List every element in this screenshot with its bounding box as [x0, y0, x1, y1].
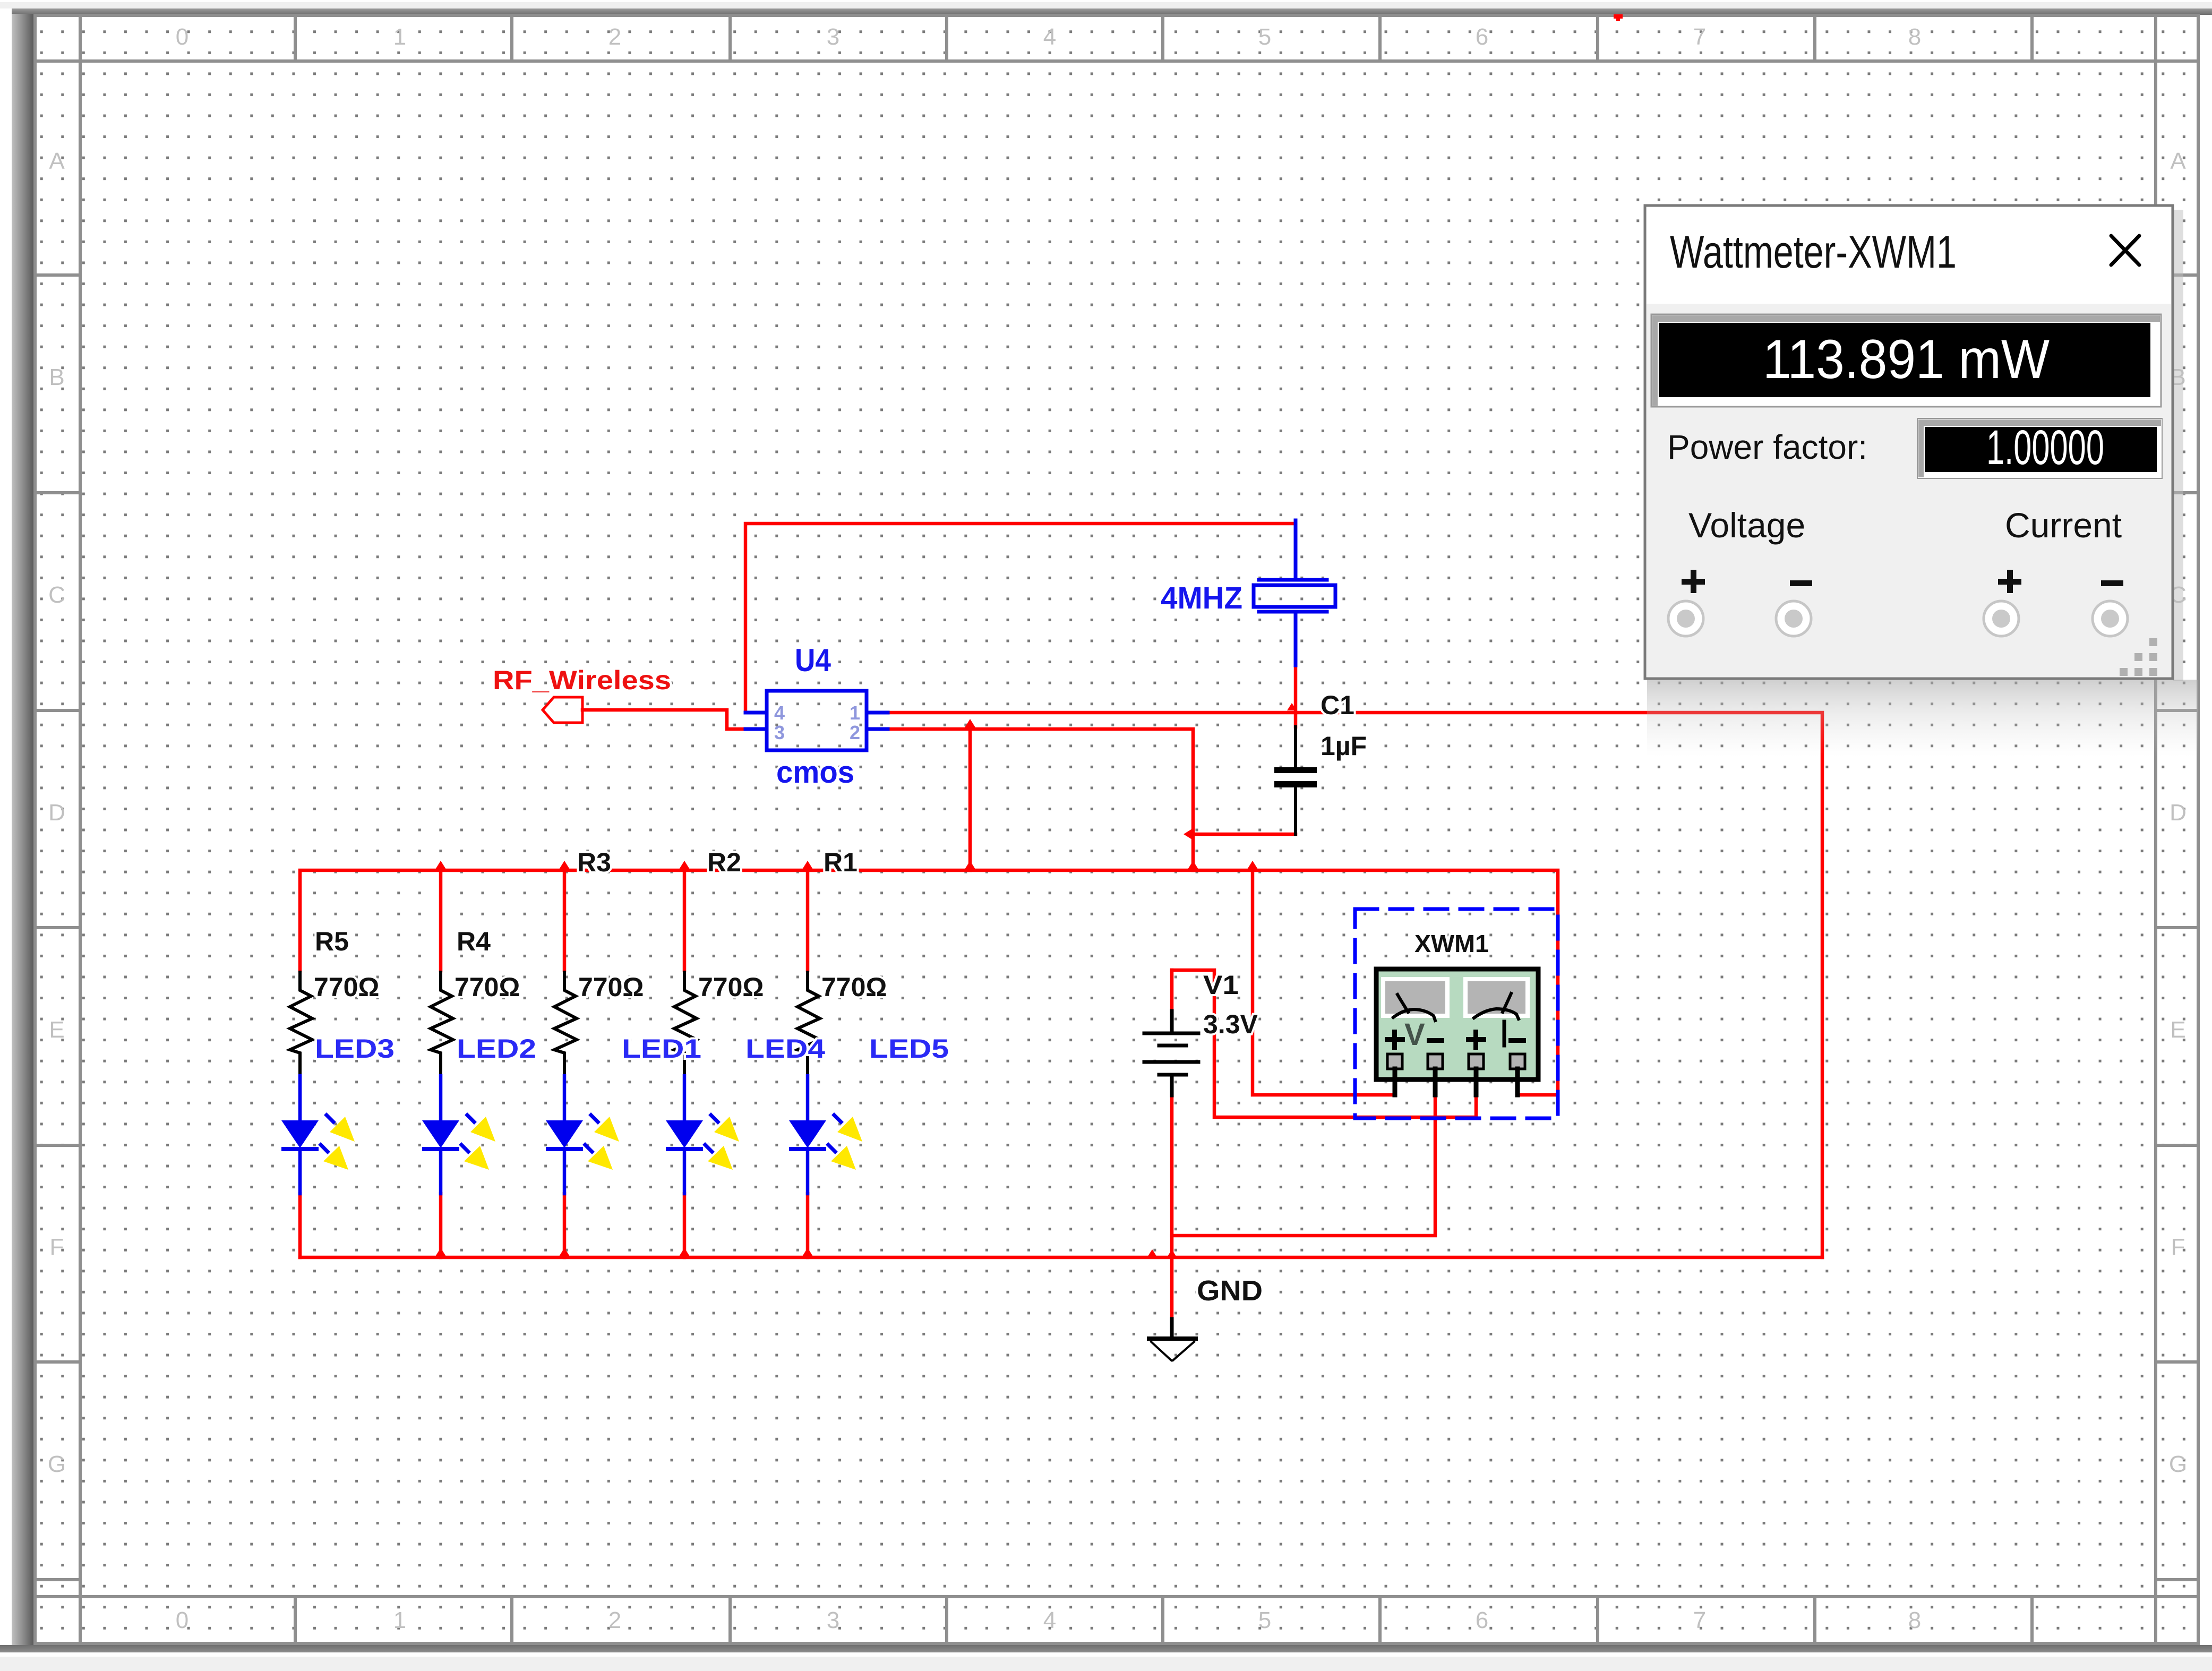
svg-text:1.00000: 1.00000: [1986, 421, 2104, 475]
LED2: [422, 1076, 495, 1194]
wire wattmeter V- to battery negative: [1172, 1095, 1435, 1236]
svg-text:B: B: [49, 364, 64, 390]
svg-text:LED5: LED5: [869, 1034, 949, 1064]
svg-text:LED1: LED1: [622, 1034, 701, 1064]
wire net U4.pin4 to crystal top loop: [745, 524, 1296, 713]
junction battery at ground bus: [1168, 1249, 1176, 1256]
junction pin2 wire at x1827: [965, 719, 975, 727]
wire RF_Wireless to U4.pin3: [582, 710, 745, 729]
junction R3 top bus: [559, 861, 570, 869]
junction crystal to pin1 wire: [1287, 703, 1297, 710]
svg-text:RF_Wireless: RF_Wireless: [493, 665, 671, 695]
svg-text:770Ω: 770Ω: [578, 972, 644, 1002]
wire battery top lead: [1170, 970, 1174, 1011]
svg-text:Wattmeter-XWM1: Wattmeter-XWM1: [1670, 227, 1957, 278]
svg-text:Voltage: Voltage: [1688, 505, 1805, 545]
resistor R1: [798, 972, 820, 1076]
svg-text:5: 5: [1258, 24, 1271, 50]
main power display: [1651, 314, 2161, 407]
svg-text:Power factor:: Power factor:: [1667, 428, 1867, 466]
junction R2 top bus: [679, 861, 690, 869]
resistor R4 branch wires: [439, 870, 443, 1257]
top/bottom ruler dividers: [294, 14, 297, 61]
svg-text:F: F: [2171, 1234, 2185, 1260]
battery V1: [1144, 1011, 1198, 1095]
svg-text:770Ω: 770Ω: [698, 972, 764, 1002]
resistor R1 branch wires: [806, 870, 810, 1257]
wire pin2-net branch to bus: [968, 729, 972, 870]
junction LED2 bottom bus: [435, 1248, 446, 1256]
svg-text:G: G: [2169, 1451, 2187, 1477]
svg-text:R4: R4: [457, 927, 491, 956]
svg-text:770Ω: 770Ω: [314, 972, 380, 1002]
IC U4 (cmos inverter): [745, 691, 888, 750]
svg-text:1µF: 1µF: [1321, 731, 1367, 761]
left meter needle: [1393, 995, 1435, 1021]
svg-text:3.3V: 3.3V: [1203, 1009, 1258, 1039]
ground: [1149, 1319, 1196, 1360]
svg-text:2: 2: [850, 722, 860, 743]
label RF_Wireless: [493, 665, 671, 695]
wattmeter XWM1 instrument: [1376, 969, 1538, 1095]
svg-text:0: 0: [176, 24, 188, 50]
svg-text:cmos: cmos: [776, 755, 854, 790]
svg-text:1: 1: [393, 1607, 406, 1633]
resize grip: [2120, 638, 2157, 676]
svg-text:8: 8: [1908, 24, 1921, 50]
svg-text:E: E: [2170, 1017, 2185, 1043]
wire U4.pin2 net: [882, 729, 1193, 870]
wire U4.pin1 net (to crystal junction and right vertical): [882, 713, 1822, 1257]
resistor R5: [290, 972, 312, 1076]
svg-text:4: 4: [774, 702, 785, 724]
svg-text:GND: GND: [1197, 1275, 1263, 1307]
radio buttons: [1668, 601, 2128, 636]
side letter dividers: [33, 273, 80, 277]
junction R1 top bus: [802, 861, 813, 869]
svg-text:3: 3: [827, 1607, 839, 1633]
svg-text:5: 5: [1258, 1607, 1271, 1633]
resistor R2 branch wires: [683, 870, 687, 1257]
wire cathode bottom bus: [300, 1256, 1822, 1259]
LED1: [546, 1076, 619, 1194]
svg-text:A: A: [49, 148, 65, 174]
svg-text:E: E: [49, 1017, 64, 1043]
svg-text:R1: R1: [824, 847, 858, 877]
svg-text:4MHZ: 4MHZ: [1161, 581, 1242, 615]
svg-text:D: D: [48, 800, 65, 826]
resistor R3 branch wires: [563, 870, 567, 1257]
close X: [2111, 236, 2139, 265]
svg-text:LED3: LED3: [315, 1034, 395, 1064]
LED5: [789, 1076, 862, 1194]
svg-text:2: 2: [608, 1607, 621, 1633]
svg-text:113.891 mW: 113.891 mW: [1763, 329, 2050, 390]
svg-text:8: 8: [1908, 1607, 1921, 1633]
junction LED5 bottom bus: [802, 1248, 813, 1256]
right meter needle: [1474, 993, 1519, 1019]
svg-text:4: 4: [1043, 1607, 1056, 1633]
resistor R4: [431, 972, 453, 1076]
U4 pin numbers: [774, 702, 860, 743]
junction LED4 bottom bus: [679, 1248, 690, 1256]
svg-text:3: 3: [827, 24, 839, 50]
svg-text:G: G: [48, 1451, 66, 1477]
svg-text:0: 0: [176, 1607, 188, 1633]
svg-text:A: A: [2170, 148, 2186, 174]
wire battery bottom to ground bus: [1170, 1095, 1174, 1319]
wire crystal bottom to pin1 net: [1294, 665, 1298, 727]
svg-text:D: D: [2170, 800, 2187, 826]
svg-text:770Ω: 770Ω: [821, 972, 887, 1002]
svg-text:7: 7: [1693, 1607, 1706, 1633]
capacitor C1: [1274, 727, 1317, 834]
resistor R5 branch wire: [298, 1194, 302, 1257]
svg-text:6: 6: [1476, 1607, 1488, 1633]
resistor R3: [554, 972, 577, 1076]
svg-text:1: 1: [393, 24, 406, 50]
svg-text:LED2: LED2: [457, 1034, 536, 1064]
junction R4 top bus: [435, 861, 446, 869]
svg-text:U4: U4: [795, 642, 831, 678]
terminal stubs: [1395, 1069, 1517, 1095]
svg-text:3: 3: [774, 722, 785, 743]
wire battery positive to wattmeter I+: [1172, 970, 1476, 1117]
LED3: [281, 1076, 355, 1194]
selection box XWM1 (dashed): [1355, 909, 1558, 1118]
wire anode top bus: [300, 870, 1558, 1095]
junction ground bus left of battery: [1147, 1249, 1157, 1257]
svg-text:XWM1: XWM1: [1414, 930, 1489, 957]
crystal XTAL 4MHZ: [1254, 520, 1335, 665]
svg-text:LED4: LED4: [745, 1034, 825, 1064]
junction C1 bottom tee: [1184, 829, 1192, 839]
junction LED1 bottom bus: [559, 1248, 570, 1256]
terminals: [1387, 1054, 1525, 1069]
svg-text:7: 7: [1693, 24, 1706, 50]
plus/minus: [1682, 570, 2123, 593]
svg-text:770Ω: 770Ω: [455, 972, 520, 1002]
wire C1 bottom to pin2-net: [1193, 833, 1296, 836]
net connector RF_Wireless arrow: [543, 697, 582, 723]
resistor R2: [674, 972, 697, 1076]
junction V+ branch at bus: [1247, 861, 1258, 869]
junction C1 branch at bus: [1188, 861, 1198, 869]
+/- terminal marks: [1385, 1030, 1526, 1050]
svg-text:R3: R3: [577, 847, 611, 877]
svg-text:6: 6: [1476, 24, 1488, 50]
svg-text:V: V: [1404, 1017, 1425, 1052]
svg-text:1: 1: [850, 702, 860, 724]
svg-text:C1: C1: [1321, 690, 1354, 720]
svg-text:4: 4: [1043, 24, 1056, 50]
red scroll tick: [1614, 14, 1623, 19]
svg-text:Current: Current: [2005, 505, 2122, 545]
svg-text:R2: R2: [707, 847, 741, 877]
svg-text:V1: V1: [1203, 970, 1239, 1000]
junction pin2-net drop to bus: [965, 861, 975, 869]
svg-text:F: F: [50, 1234, 64, 1260]
svg-text:R5: R5: [315, 927, 349, 956]
svg-text:C: C: [48, 582, 65, 608]
Wattmeter-XWM1 dialog window: [1645, 205, 2198, 757]
wire top bus to wattmeter V+: [1253, 870, 1395, 1095]
svg-text:2: 2: [608, 24, 621, 50]
LED4: [666, 1076, 739, 1194]
